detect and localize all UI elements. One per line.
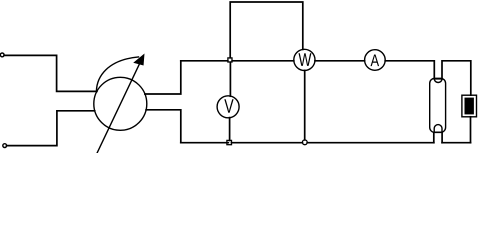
starter bottom stem [470, 117, 472, 143]
wattmeter W circle [294, 49, 315, 70]
starter black body [465, 98, 474, 115]
wattmeter W stem bottom [304, 71, 306, 140]
bottom bus: node N3 to lamp pin P3 [307, 142, 434, 144]
wire variac right bottom tap to bottom bus [146, 110, 181, 143]
voltmeter V circle [217, 96, 239, 118]
voltmeter V stem bottom [229, 118, 231, 141]
wire wattmeter voltage-coil loop [230, 2, 303, 58]
node N2 (open square on bottom bus) [227, 140, 232, 144]
wire top bus: wattmeter to ammeter [315, 60, 365, 62]
voltmeter V stem top [229, 62, 231, 96]
starter outer box [462, 95, 477, 117]
label A [371, 55, 380, 67]
wire lamp bottom pin P3 to bus [433, 132, 435, 142]
wire top bus: ammeter to lamp pin P1 [385, 61, 434, 79]
wire lamp bottom pin P4 to bus [441, 132, 443, 142]
label V [224, 99, 233, 113]
bottom bus: node N2 to node N3 [232, 142, 303, 144]
variac wiper arc [96, 57, 138, 91]
label W [299, 53, 312, 66]
bottom filament electrode [434, 125, 442, 133]
wire top bus: node N1 to wattmeter [232, 60, 294, 62]
top filament electrode [434, 79, 442, 83]
node N1 (junction, open square) [228, 58, 232, 62]
wire top bus: variac to node N1 [181, 60, 228, 62]
terminal T2 (bottom-left supply) [3, 144, 7, 148]
wire T1 to corner [4, 55, 97, 91]
wire variac right top tap to top bus [145, 61, 181, 94]
variac arrowhead [134, 55, 144, 65]
terminal T1 (top-left supply) [0, 53, 4, 57]
node N3 (open circle on bottom bus) [302, 140, 307, 145]
autotransformer (variac) T3 circle [94, 77, 147, 130]
fluorescent tube outline [430, 78, 446, 132]
bottom bus: lamp pin P4 to starter [442, 142, 470, 144]
ammeter A circle [365, 50, 386, 71]
wire lamp pin P2 to starter S1 [442, 61, 471, 95]
bottom bus: variac to node N2 [181, 142, 229, 144]
wire T2 to corner [7, 111, 95, 146]
variac arrow shaft [97, 64, 140, 154]
